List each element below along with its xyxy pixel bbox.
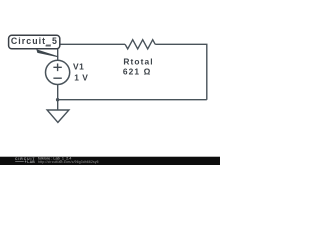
svg-text:V1: V1	[73, 62, 84, 72]
footer CircuitLab logo dash	[15, 161, 24, 163]
footer bar	[0, 157, 220, 165]
footer CircuitLab logo bolt	[25, 160, 27, 163]
svg-text:LAB: LAB	[27, 160, 35, 164]
wire: V1 bottom terminal down to ground	[57, 84, 59, 110]
svg-text:621 Ω: 621 Ω	[123, 67, 152, 77]
wire: V1 top terminal up and right to resistor	[58, 44, 125, 60]
svg-text:Circuit_5: Circuit_5	[11, 36, 58, 46]
wire: bottom return to node	[58, 99, 207, 101]
voltage source V1 body	[46, 60, 70, 84]
svg-text:Rtotal: Rtotal	[123, 57, 153, 67]
resistor Rtotal	[125, 40, 155, 49]
V1 minus sign	[53, 77, 61, 79]
wire: resistor right, down right side	[155, 44, 207, 99]
node junction dot	[56, 98, 59, 101]
svg-text:http://circuitlab.com/c/96g3dh: http://circuitlab.com/c/96g3dh662sy5	[38, 160, 99, 164]
label Circuit_5 underscore	[46, 45, 51, 46]
ground	[47, 110, 69, 122]
callout tail for Circuit_5	[36, 49, 58, 57]
svg-text:1 V: 1 V	[74, 73, 88, 83]
callout box Circuit_5	[9, 35, 60, 49]
V1 plus sign	[53, 64, 61, 72]
